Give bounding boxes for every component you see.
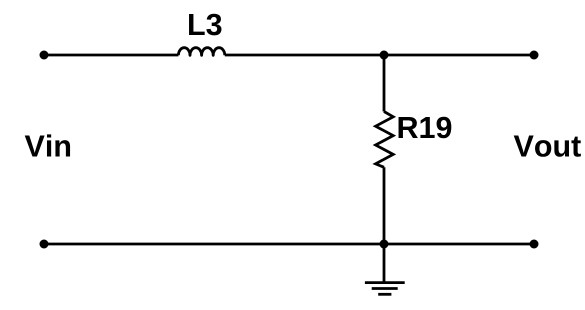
node Vin bottom terminal	[40, 240, 49, 249]
label Vout	[514, 136, 581, 157]
label R19	[399, 117, 452, 139]
wire top-left (Vin top to inductor L3)	[44, 54, 178, 57]
inductor L3	[178, 48, 224, 56]
resistor R19	[376, 112, 394, 168]
wire vertical (resistor R19 to bottom node / ground)	[383, 167, 386, 282]
wire vertical (top node to resistor R19)	[383, 55, 386, 112]
label Vin	[25, 134, 70, 156]
label L3	[189, 14, 221, 36]
node Vout top terminal	[530, 51, 539, 60]
wire top-right (inductor L3 to node Vout top)	[225, 54, 534, 57]
node Vout bottom terminal	[530, 240, 539, 249]
wire bottom (Vin bottom to Vout bottom)	[44, 243, 534, 246]
ground	[365, 283, 405, 295]
node junction top (L3 / R19 / Vout)	[380, 51, 389, 60]
node junction bottom (ground)	[380, 240, 389, 249]
node Vin top terminal	[40, 51, 49, 60]
